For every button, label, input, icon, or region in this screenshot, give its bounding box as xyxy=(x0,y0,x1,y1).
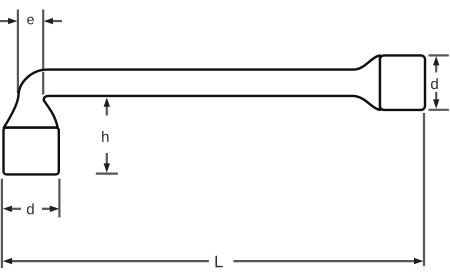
dimension h : label xyxy=(102,131,108,142)
dimension d right : bottom tick xyxy=(429,109,449,111)
dimension d bottom-left : extension line left xyxy=(1,179,3,268)
dimension e : extension line left xyxy=(17,10,19,94)
dimension L : line left segment xyxy=(11,260,209,262)
dimension h : top arrow xyxy=(106,106,108,116)
dimension d right : label xyxy=(431,78,438,89)
dimension d right : up arrow xyxy=(435,65,437,73)
dimension h : bottom arrow xyxy=(106,153,108,164)
dimension d right : top tick xyxy=(429,54,449,56)
dimension d bottom-left : left arrow xyxy=(3,206,12,212)
dimension h : bottom tick xyxy=(96,173,118,175)
dimension d bottom-left : extension line right xyxy=(58,179,60,218)
dimension e : left arrow xyxy=(0,20,9,22)
left socket head (bottom) xyxy=(4,128,59,175)
dimension e : extension line right (inside arm) xyxy=(42,72,44,95)
dimension d bottom-left : label xyxy=(27,203,34,214)
dimension d bottom-left : right arrow xyxy=(42,208,51,210)
dimension d right : down arrow xyxy=(435,92,437,100)
dimension L : right extension line xyxy=(423,113,425,266)
dimension e : label xyxy=(27,17,34,25)
dimension e : extension line right xyxy=(42,10,44,101)
dimension e : right arrow xyxy=(52,20,62,22)
wrench body outline (arm + shaft) xyxy=(4,55,380,127)
right socket head xyxy=(380,55,425,110)
dimension L : label xyxy=(215,256,222,267)
dimension L : line right segment xyxy=(233,260,415,262)
